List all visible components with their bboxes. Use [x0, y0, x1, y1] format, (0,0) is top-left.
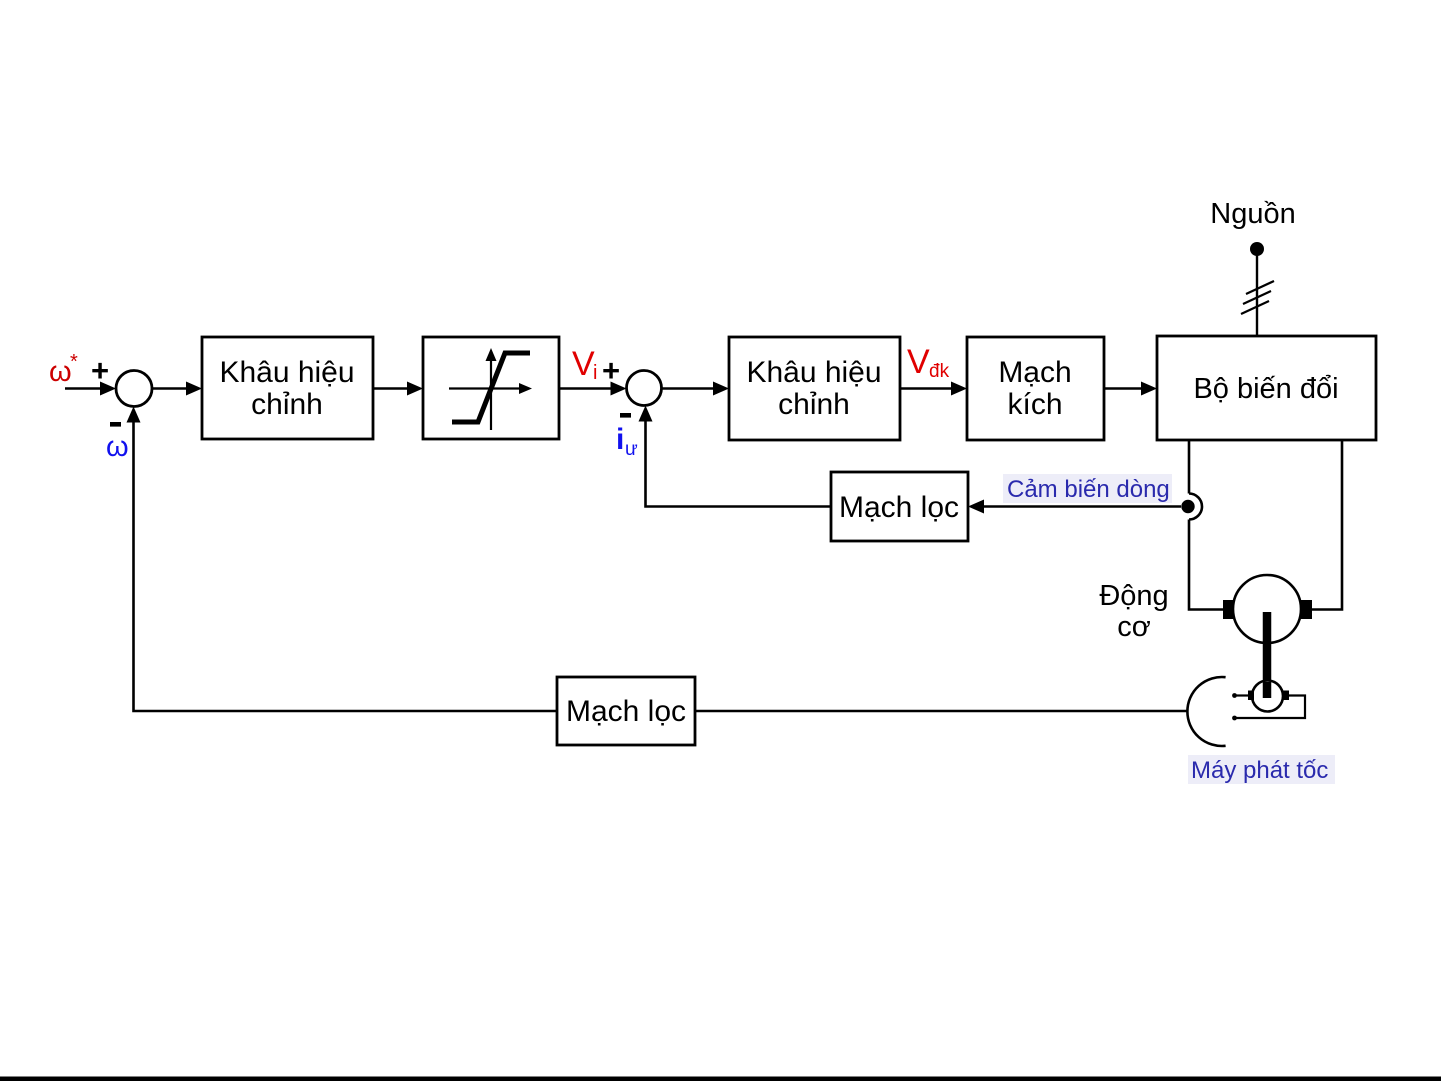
block Mach loc (bottom) [557, 677, 695, 745]
svg-text:V: V [572, 345, 595, 383]
block limiter (saturation) [423, 337, 559, 439]
wire block1 to limiter [373, 382, 423, 396]
node Cam bien dong label [1003, 474, 1172, 503]
svg-text:chỉnh: chỉnh [778, 388, 850, 421]
wire Nguon to Bo bien doi [1256, 255, 1258, 336]
motor shaft [1263, 612, 1272, 698]
tacho terminal dot A [1232, 693, 1237, 698]
svg-text:Khâu hiệu: Khâu hiệu [746, 356, 881, 389]
wire Mach kich to Bo bien doi [1104, 382, 1157, 396]
node Nguon terminal dot [1250, 242, 1264, 256]
svg-text:i: i [616, 423, 624, 456]
three-phase slash marks [1241, 281, 1274, 314]
svg-text:Máy phát tốc: Máy phát tốc [1191, 757, 1328, 784]
wire block2 to Mach kich [900, 382, 967, 396]
motor M circle [1233, 575, 1301, 643]
limiter horizontal axis [449, 387, 524, 389]
wire Mach loc (mid) to S2 [639, 406, 832, 507]
wire Bo bien doi down-right to motor [1312, 440, 1342, 610]
block Bo bien doi [1157, 336, 1376, 440]
tachogenerator circle [1252, 681, 1283, 712]
svg-text:*: * [70, 351, 78, 373]
wire tacho to Mach loc (bottom) [695, 710, 1188, 713]
svg-text:Nguồn: Nguồn [1210, 198, 1295, 230]
wire Mach loc (bottom) to S1 [127, 407, 558, 712]
current sensor node dot [1181, 500, 1194, 513]
svg-text:Bộ biến đổi: Bộ biến đổi [1193, 373, 1338, 405]
wire tacho right loop to dot B [1236, 696, 1305, 719]
block Khau hieu chinh 2 [729, 337, 900, 440]
wire S2 to block2 [662, 382, 730, 396]
svg-text:Mạch lọc: Mạch lọc [839, 491, 959, 524]
wire limiter to S2 [559, 382, 627, 396]
wire Bo bien doi down-left to motor [1188, 440, 1191, 494]
tacho right terminal square [1283, 691, 1289, 701]
bottom page rule [0, 1077, 1441, 1081]
svg-text:cơ: cơ [1117, 611, 1151, 643]
motor left brush terminal [1223, 600, 1233, 619]
svg-text:kích: kích [1007, 388, 1062, 421]
node May phat toc label [1188, 755, 1335, 784]
shaft inside tacho [1263, 682, 1272, 698]
block Khau hieu chinh 1 [202, 337, 373, 439]
svg-text:V: V [907, 343, 930, 381]
minus sign at S2 [620, 413, 631, 418]
summing junction S2 [627, 371, 662, 406]
tacho stator horseshoe arc [1187, 677, 1225, 746]
minus sign at S1 [110, 422, 121, 427]
limiter vertical axis [490, 356, 492, 430]
current sensor hop arc [1189, 494, 1202, 520]
limiter saturation curve [452, 353, 530, 422]
svg-text:ư: ư [625, 439, 638, 460]
tacho terminal dot B [1232, 716, 1237, 721]
svg-text:chỉnh: chỉnh [251, 388, 323, 421]
wire sensor to Mach loc (mid) with arrow [968, 500, 1181, 514]
svg-text:Mạch: Mạch [998, 356, 1071, 389]
svg-text:Mạch lọc: Mạch lọc [566, 695, 686, 728]
svg-text:ω: ω [106, 431, 129, 463]
wire S1 to block1 [152, 382, 202, 396]
wire input arrow into S1 [65, 382, 116, 396]
block Mach loc (mid) [831, 472, 968, 541]
summing junction S1 [116, 371, 152, 407]
wire continues to motor left terminal [1189, 520, 1223, 610]
svg-text:Động: Động [1099, 580, 1168, 612]
motor right brush terminal [1301, 600, 1312, 619]
tacho left terminal square [1248, 691, 1254, 701]
svg-text:Khâu hiệu: Khâu hiệu [219, 356, 354, 389]
svg-text:đk: đk [929, 361, 950, 382]
wire dot A to tacho [1235, 694, 1249, 696]
block Mach kich [967, 337, 1104, 440]
svg-text:Cảm biến dòng: Cảm biến dòng [1007, 476, 1170, 503]
svg-text:i: i [593, 362, 597, 384]
svg-text:ω: ω [49, 356, 72, 388]
